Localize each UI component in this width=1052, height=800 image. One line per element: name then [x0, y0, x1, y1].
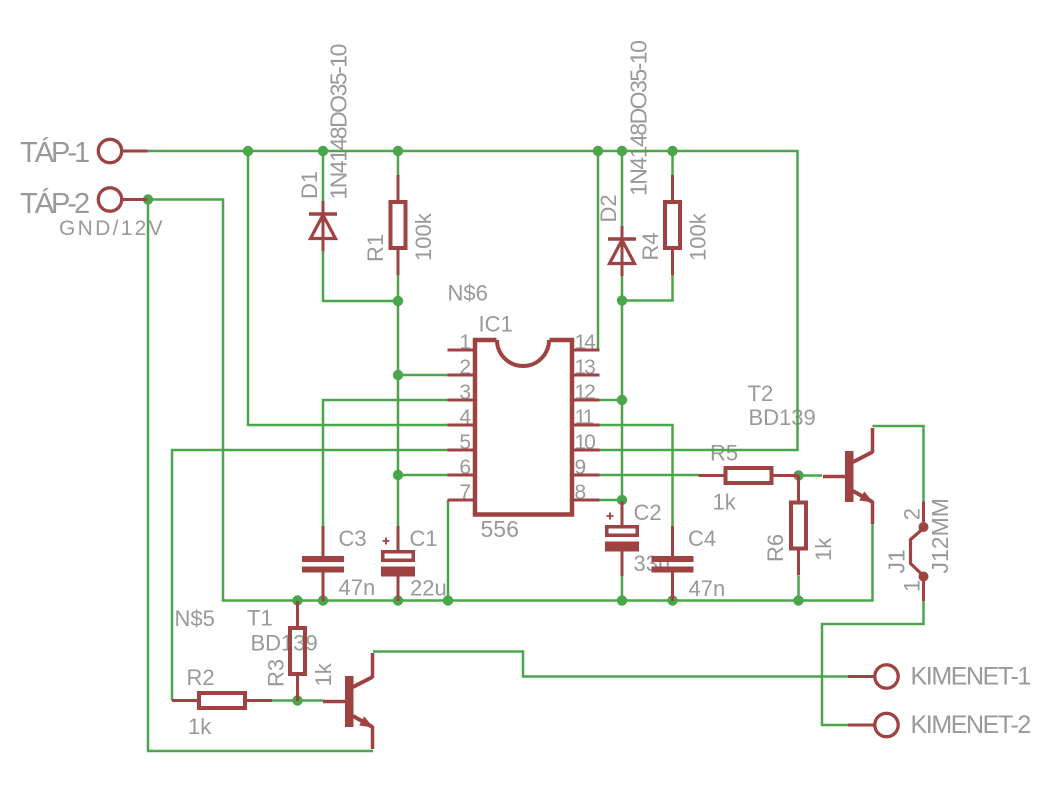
- svg-text:BD139: BD139: [251, 631, 318, 656]
- svg-text:C4: C4: [688, 526, 716, 551]
- svg-text:KIMENET-2: KIMENET-2: [911, 711, 1031, 739]
- svg-text:KIMENET-1: KIMENET-1: [911, 663, 1031, 691]
- svg-text:1k: 1k: [811, 537, 836, 561]
- svg-text:BD139: BD139: [749, 405, 816, 430]
- svg-text:1k: 1k: [713, 490, 737, 515]
- svg-text:47n: 47n: [339, 575, 376, 600]
- svg-text:T2: T2: [748, 381, 774, 406]
- svg-text:TÁP-2: TÁP-2: [20, 187, 89, 220]
- svg-text:1k: 1k: [311, 662, 336, 686]
- svg-text:R1: R1: [363, 234, 388, 262]
- svg-text:100k: 100k: [411, 212, 436, 261]
- svg-text:R5: R5: [710, 441, 738, 466]
- svg-text:IC1: IC1: [479, 312, 513, 337]
- svg-text:R3: R3: [264, 659, 289, 687]
- svg-text:C2: C2: [634, 500, 662, 525]
- svg-text:100k: 100k: [686, 212, 711, 261]
- svg-text:22u: 22u: [410, 576, 447, 601]
- svg-text:1N4148DO35-10: 1N4148DO35-10: [326, 44, 352, 199]
- svg-text:J12MM: J12MM: [927, 498, 953, 573]
- svg-text:T1: T1: [247, 606, 273, 631]
- svg-text:C1: C1: [410, 526, 438, 551]
- svg-text:N$5: N$5: [175, 606, 215, 631]
- svg-text:D2: D2: [596, 194, 621, 222]
- svg-text:C3: C3: [339, 526, 367, 551]
- svg-text:R6: R6: [763, 534, 788, 562]
- svg-text:D1: D1: [297, 171, 322, 199]
- svg-text:1N4148DO35-10: 1N4148DO35-10: [626, 41, 652, 196]
- svg-text:N$6: N$6: [448, 281, 488, 306]
- svg-text:556: 556: [481, 516, 519, 542]
- svg-text:J1: J1: [884, 549, 910, 573]
- svg-text:TÁP-1: TÁP-1: [20, 136, 89, 169]
- svg-text:47n: 47n: [689, 576, 726, 601]
- svg-text:R4: R4: [638, 232, 663, 260]
- svg-text:R2: R2: [187, 665, 215, 690]
- svg-text:1k: 1k: [188, 714, 212, 739]
